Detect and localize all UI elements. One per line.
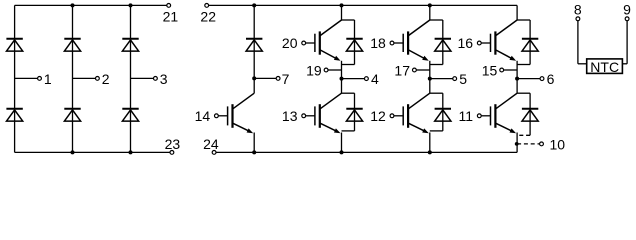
wire lower diode branch — [354, 93, 356, 131]
wire AC input stub 2 — [73, 77, 96, 79]
junction bottom bus leg 3 — [129, 150, 133, 154]
wire lower diode branch — [442, 93, 444, 131]
junction top bus leg V — [428, 3, 432, 7]
diode D7 (brake freewheel) — [246, 39, 262, 51]
diode D2b (lower, leg 2) — [64, 109, 80, 121]
wire upper diode branch top — [517, 19, 530, 21]
node 17 (aux emitter) — [413, 68, 417, 72]
wire lower diode branch top — [517, 92, 530, 94]
svg-text:11: 11 — [459, 108, 474, 124]
wire upper diode branch bottom — [517, 64, 530, 66]
diode across V20 — [346, 39, 362, 51]
svg-text:17: 17 — [394, 62, 410, 78]
wire top DC+ bus (rectifier) — [15, 4, 167, 6]
terminal 24 (DC- inverter) — [212, 151, 216, 155]
svg-text:6: 6 — [547, 71, 555, 87]
diode D3t (upper, leg 3) — [122, 39, 138, 51]
transistor V7 (brake chopper) (IGBT) — [218, 93, 254, 133]
svg-text:23: 23 — [165, 136, 181, 152]
junction bottom bus leg V — [428, 150, 432, 154]
wire collector drop — [516, 5, 518, 20]
wire node 7 stub — [254, 77, 276, 79]
junction bottom bus leg 2 — [71, 150, 75, 154]
junction phase node 4 — [340, 77, 344, 81]
node 16 (gate of V16) — [477, 41, 481, 45]
wire bottom DC- bus (rectifier) — [15, 151, 171, 153]
svg-text:22: 22 — [200, 8, 216, 24]
diode across V13 — [346, 109, 362, 121]
wire emitter to DC- bus corner — [516, 133, 518, 153]
wire upper diode branch top — [342, 19, 355, 21]
wire upper diode branch top — [430, 19, 443, 21]
wire upper diode branch — [354, 20, 356, 65]
terminal 8 — [576, 17, 580, 21]
wire AC input stub 3 — [131, 77, 154, 79]
wire lower diode branch bottom — [342, 130, 355, 132]
svg-text:13: 13 — [282, 108, 298, 124]
wire rectifier leg 2 — [72, 5, 74, 152]
junction phase node 6 — [515, 77, 519, 81]
wire phase stub 5 — [430, 78, 453, 80]
wire upper diode branch bottom — [342, 64, 355, 66]
junction node 7 — [252, 76, 256, 80]
wire emitter / phase node segment — [341, 61, 343, 93]
svg-text:12: 12 — [370, 108, 386, 124]
junction bottom bus leg U — [340, 150, 344, 154]
wire into NTC right — [622, 63, 627, 65]
wire rectifier leg 1 — [14, 5, 16, 152]
wire upper diode branch — [529, 20, 531, 65]
wire brake emitter to DC- bus — [253, 133, 255, 153]
svg-text:10: 10 — [550, 136, 566, 152]
node 15 (aux emitter) — [500, 68, 504, 72]
svg-text:19: 19 — [306, 62, 322, 78]
terminal 9 — [625, 17, 629, 21]
wire upper diode branch — [442, 20, 444, 65]
terminal 21 (DC+) — [167, 4, 171, 8]
wire lower diode branch bottom — [430, 130, 443, 132]
diode D1b (lower, leg 1) — [6, 109, 22, 121]
thermistor NTC — [587, 59, 623, 74]
wire upper diode branch bottom — [430, 64, 443, 66]
wire top DC+ bus (inverter) — [209, 4, 517, 6]
svg-text:4: 4 — [371, 71, 379, 87]
node 13 (gate of V13) — [302, 114, 306, 118]
node 3 (AC input) — [154, 77, 158, 81]
svg-text:9: 9 — [623, 2, 631, 18]
node 2 (AC input) — [96, 77, 100, 81]
node 4 (phase output) — [365, 77, 369, 81]
wire rectifier leg 3 — [130, 5, 132, 152]
diode across V16 — [522, 39, 538, 51]
node 19 (aux emitter) — [324, 68, 328, 72]
wire terminal 9 down — [626, 21, 628, 64]
node 12 (gate of V12) — [390, 114, 394, 118]
wire emitter to DC- bus — [341, 133, 343, 153]
junction top bus leg U — [340, 3, 344, 7]
wire brake leg upper (through diode) — [253, 5, 255, 78]
wire emitter to DC- bus — [429, 133, 431, 153]
junction bottom bus brake leg — [252, 150, 256, 154]
wire lower diode branch (leg W) — [529, 93, 531, 135]
diode across V12 — [435, 109, 451, 121]
diode across V11 — [522, 109, 538, 121]
node 11 (gate of V11) — [477, 114, 481, 118]
terminal 22 (DC+ inverter) — [205, 4, 209, 8]
wire lower diode branch top — [342, 92, 355, 94]
node 1 (AC input) — [38, 77, 42, 81]
svg-text:14: 14 — [195, 108, 211, 124]
svg-text:15: 15 — [482, 62, 498, 78]
node 18 (gate of V18) — [390, 41, 394, 45]
svg-text:21: 21 — [163, 8, 179, 24]
svg-text:20: 20 — [282, 35, 298, 51]
svg-text:24: 24 — [203, 136, 219, 152]
transistor V18 (IGBT) — [394, 20, 430, 61]
wire terminal 8 down — [577, 21, 579, 64]
diode across V18 — [435, 39, 451, 51]
diode D1t (upper, leg 1) — [6, 39, 22, 51]
junction node 10 tap — [515, 142, 519, 146]
diode D3b (lower, leg 3) — [122, 109, 138, 121]
wire dashed diode-to-emitter link — [517, 134, 530, 136]
svg-text:NTC: NTC — [590, 59, 619, 75]
node 20 (gate of V20) — [302, 41, 306, 45]
wire dashed node 10 link — [517, 143, 540, 145]
wire bottom DC- bus (inverter) — [216, 151, 517, 153]
transistor V13 (IGBT) — [305, 93, 341, 133]
svg-text:1: 1 — [44, 71, 52, 87]
node 10 (aux emitter W) — [540, 142, 544, 146]
wire brake leg to chopper IGBT — [253, 78, 255, 93]
wire phase stub 6 — [517, 78, 540, 80]
node 5 (phase output) — [453, 77, 457, 81]
wire into NTC left — [578, 63, 587, 65]
wire collector drop — [429, 5, 431, 20]
transistor V20 (IGBT) — [305, 20, 341, 61]
junction top bus leg 2 — [71, 3, 75, 7]
svg-text:8: 8 — [574, 2, 582, 18]
wire AC input stub 1 — [15, 77, 38, 79]
transistor V11 (IGBT) — [481, 93, 517, 133]
svg-text:2: 2 — [102, 71, 110, 87]
junction top bus leg 3 — [129, 3, 133, 7]
node 7 (brake resistor) — [276, 77, 280, 81]
svg-text:3: 3 — [160, 71, 168, 87]
svg-text:18: 18 — [370, 35, 386, 51]
node 14 (gate of V7 (brake chopper)) — [215, 114, 219, 118]
junction phase node 5 — [428, 77, 432, 81]
wire emitter / phase node segment — [429, 61, 431, 93]
svg-text:7: 7 — [282, 71, 290, 87]
terminal 23 (DC-) — [170, 151, 174, 155]
wire lower diode branch top — [430, 92, 443, 94]
node 6 (phase output) — [540, 77, 544, 81]
transistor V16 (IGBT) — [481, 20, 517, 61]
svg-text:16: 16 — [458, 35, 474, 51]
transistor V12 (IGBT) — [394, 93, 430, 133]
wire phase stub 4 — [342, 78, 365, 80]
svg-text:5: 5 — [459, 71, 467, 87]
diode D2t (upper, leg 2) — [64, 39, 80, 51]
junction top bus brake leg — [252, 3, 256, 7]
wire emitter / phase node segment — [516, 61, 518, 93]
wire collector drop — [341, 5, 343, 20]
